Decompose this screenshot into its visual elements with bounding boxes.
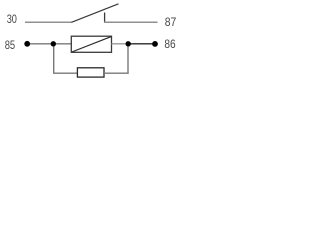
resistor R1 body	[77, 68, 104, 77]
relay coil K1 diagonal	[72, 37, 111, 52]
svg-text:85: 85	[5, 38, 16, 52]
wire from fixed contact to terminal 87	[104, 21, 158, 23]
switch S1 fixed contact stub	[104, 13, 106, 23]
relay coil K1 body	[71, 36, 111, 52]
wire from terminal 30 to switch blade pivot	[25, 21, 72, 23]
wire from 85 terminal dot to left junction	[27, 43, 54, 45]
wire: bottom-right horizontal from resistor	[104, 72, 129, 74]
node: right junction dot	[126, 41, 131, 46]
wire: bottom-left horizontal to resistor	[53, 72, 78, 74]
svg-text:87: 87	[165, 15, 177, 29]
wire: right vertical drop to resistor branch	[127, 44, 129, 73]
node: left junction dot	[51, 41, 56, 46]
wire from left junction to coil	[54, 43, 73, 45]
node: terminal 85 dot	[24, 41, 30, 47]
node: terminal 86 dot	[152, 41, 158, 47]
wire from right junction to terminal 86 dot	[128, 43, 155, 45]
wire from coil to right junction	[112, 43, 129, 45]
switch S1 blade (open contact between 30 and 87)	[72, 4, 119, 23]
svg-text:86: 86	[164, 37, 175, 51]
wire: left vertical drop to resistor branch	[53, 44, 55, 73]
svg-text:30: 30	[7, 12, 17, 26]
